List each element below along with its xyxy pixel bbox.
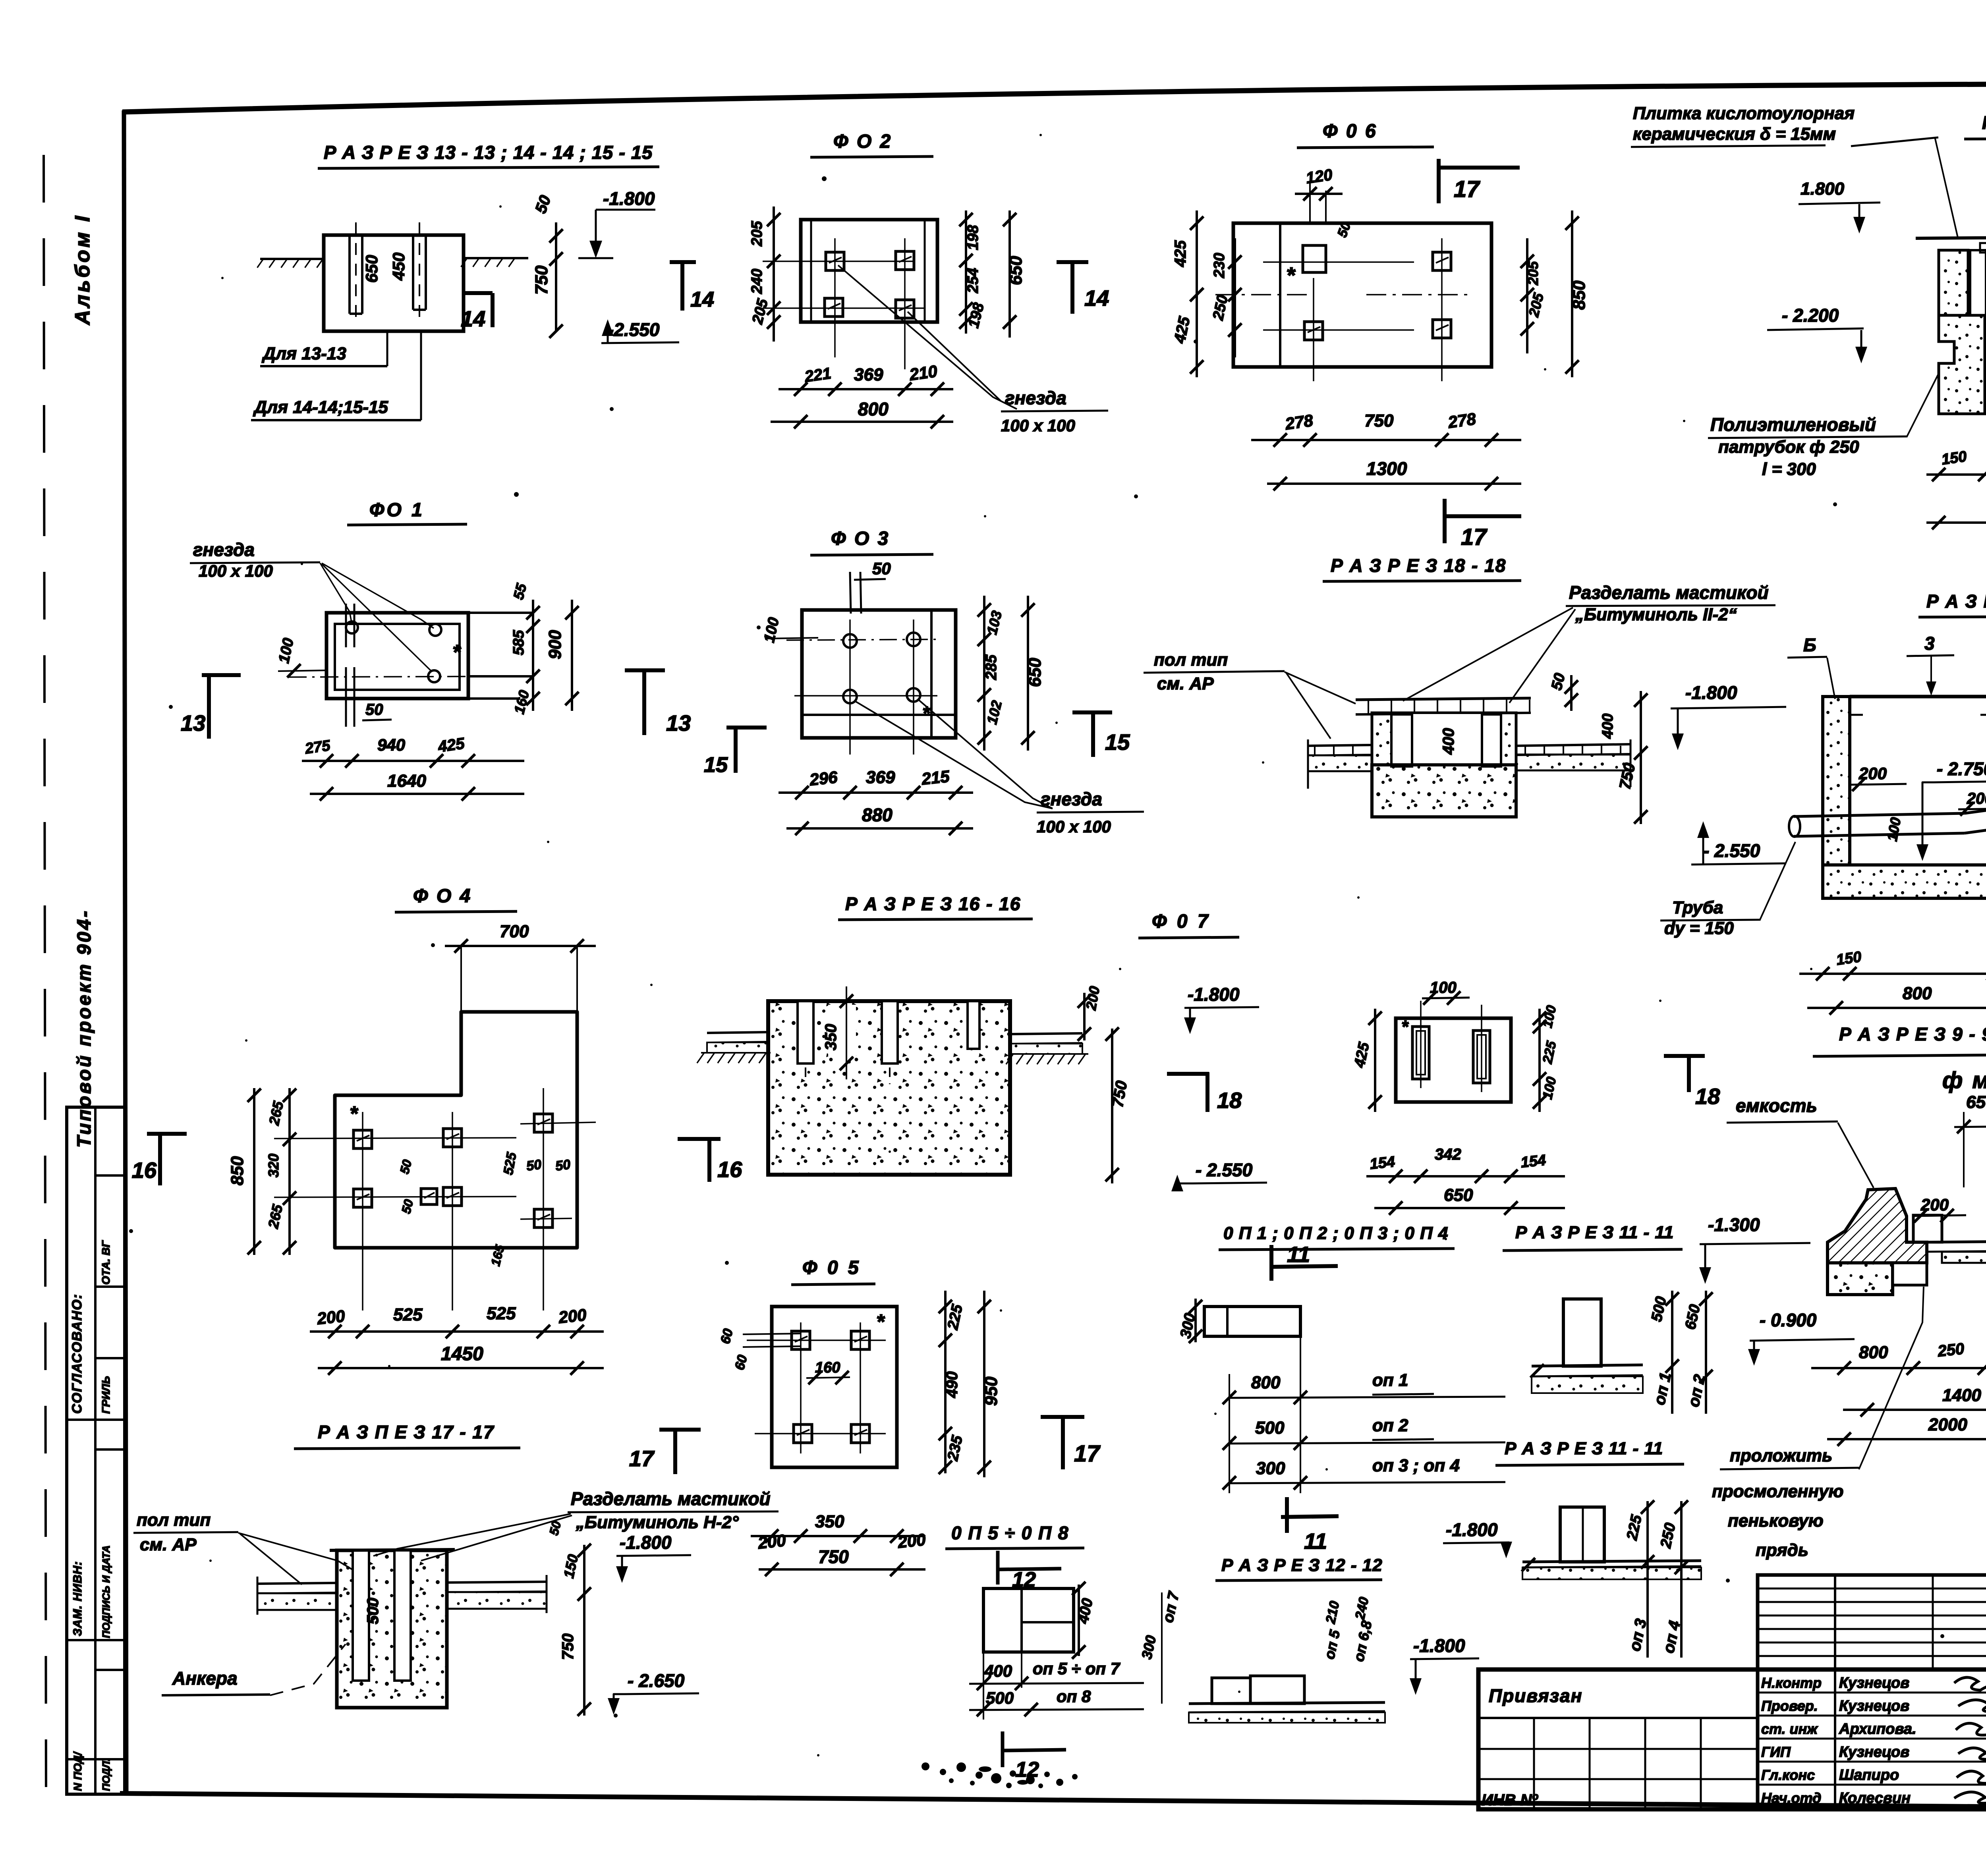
svg-text:369: 369 [866, 768, 895, 787]
bottom dim chain 7-7 [1799, 973, 1986, 975]
svg-text:278: 278 [1447, 409, 1478, 432]
right dim chain 205 205 850 [1526, 238, 1528, 353]
nest circles FO3 [843, 634, 857, 648]
svg-text:50: 50 [525, 1157, 543, 1174]
axis line col 1 [834, 238, 836, 357]
svg-text:Альбом I: Альбом I [71, 214, 94, 326]
axis line col 2 [904, 238, 906, 369]
row 400 op5-op7 [969, 1683, 1144, 1684]
section mark 17 top [1437, 159, 1441, 203]
row line op2 [1229, 1442, 1505, 1444]
svg-text:Анкера: Анкера [172, 1668, 238, 1689]
svg-text:Ф О 2: Ф О 2 [833, 131, 892, 152]
svg-text:800: 800 [1251, 1373, 1281, 1392]
pedestal 12-12 b [1250, 1676, 1304, 1704]
svg-text:400: 400 [1440, 728, 1457, 755]
svg-text:Р А З Р Е З 11 - 11: Р А З Р Е З 11 - 11 [1515, 1223, 1674, 1242]
nest square top-right [896, 251, 914, 270]
svg-text:13: 13 [181, 710, 205, 735]
svg-text:керамическия δ = 15мм: керамическия δ = 15мм [1633, 124, 1836, 144]
svg-text:ИНВ Nº: ИНВ Nº [1482, 1791, 1539, 1809]
svg-text:Для 14-14;15-15: Для 14-14;15-15 [253, 398, 388, 417]
trough inner cavity [1412, 713, 1482, 765]
svg-text:154: 154 [1369, 1154, 1396, 1173]
section mark 14 right [1057, 260, 1088, 264]
section mark 11 bottom [1285, 1497, 1289, 1533]
svg-text:Р А З Р Е З 11 - 11: Р А З Р Е З 11 - 11 [1505, 1439, 1663, 1458]
anchor slot left [348, 235, 351, 314]
svg-text:400: 400 [1600, 714, 1616, 739]
FO7 slot right [1473, 1031, 1490, 1083]
svg-text:- 2.750: - 2.750 [1937, 759, 1986, 779]
svg-text:оп 3 ; оп 4: оп 3 ; оп 4 [1372, 1456, 1460, 1475]
left dim chain [773, 207, 775, 342]
figure section 17-17 [133, 1422, 779, 1716]
svg-text:Р А З Р Е З 6 - 6: Р А З Р Е З 6 - 6 [1982, 112, 1986, 133]
svg-text:17: 17 [1454, 176, 1480, 202]
figure FO5 plan [629, 1257, 1101, 1576]
dim line 50 and 750 right of block [555, 222, 557, 331]
pier with anchors concrete 17-17 [337, 1550, 447, 1708]
svg-text:650: 650 [1006, 256, 1026, 285]
svg-text:ГРИЛЬ: ГРИЛЬ [100, 1376, 112, 1414]
section mark 16 left [147, 1132, 187, 1136]
right chain 400 750 18-18 [1640, 691, 1642, 824]
nest square top-left [826, 252, 844, 270]
svg-text:оп 5 ÷ оп 7: оп 5 ÷ оп 7 [1033, 1659, 1121, 1678]
axis line row 2 [763, 307, 925, 309]
svg-text:250: 250 [1936, 1340, 1965, 1360]
right floor slab 17-17 [447, 1582, 547, 1583]
FO6 inner vertical line [1279, 223, 1281, 367]
figure FO4 plan [132, 886, 742, 1375]
svg-text:Труба: Труба [1672, 898, 1723, 917]
right floor slab 18-18 [1516, 744, 1631, 746]
axis line row 1 [763, 261, 914, 262]
left dims 60 60 [743, 1334, 801, 1334]
svg-text:278: 278 [1284, 411, 1315, 434]
svg-text:16: 16 [717, 1157, 742, 1182]
svg-text:369: 369 [854, 365, 883, 384]
svg-text:l = 300: l = 300 [1762, 459, 1816, 479]
svg-text:*: * [350, 1102, 359, 1125]
svg-text:Ф 0 5: Ф 0 5 [802, 1257, 861, 1278]
FO2 inner line left [810, 220, 812, 322]
svg-text:490: 490 [943, 1371, 961, 1398]
svg-text:N ПОД/: N ПОД/ [71, 1751, 84, 1791]
svg-text:ст. инж: ст. инж [1761, 1721, 1818, 1737]
nest square top-right [1433, 252, 1451, 270]
svg-text:240: 240 [749, 269, 765, 294]
trough slots 18-18 [1391, 714, 1412, 766]
svg-text:15: 15 [1105, 730, 1130, 755]
svg-text:100 х 100: 100 х 100 [199, 562, 273, 580]
left dim chain 265 320 265 FO4 [288, 1088, 291, 1255]
axis lines FO4 [274, 1138, 516, 1139]
svg-text:-1.800: -1.800 [1188, 984, 1240, 1005]
right chain 100 225 100 FO7 [1538, 1009, 1541, 1112]
right chain 225 490 235 [944, 1291, 947, 1473]
svg-text:850: 850 [228, 1156, 247, 1185]
bottom dim 1300 [1267, 483, 1521, 485]
svg-text:14: 14 [690, 288, 714, 311]
svg-text:205: 205 [749, 221, 765, 247]
ground line left with hatch [260, 258, 325, 260]
svg-text:950: 950 [981, 1376, 1001, 1406]
pit floor slab 6-6 [1985, 382, 1986, 414]
svg-text:14: 14 [461, 306, 485, 331]
figure FO1 plan [181, 500, 691, 801]
concrete mass block 16-16 [768, 1001, 1010, 1175]
dim 1400 9-9 [1843, 1409, 1986, 1411]
svg-text:50: 50 [554, 1157, 572, 1174]
svg-text:ЗАМ. НИВН:: ЗАМ. НИВН: [71, 1561, 84, 1636]
left pit base slab [1823, 865, 1986, 898]
svg-text:- 2.550: - 2.550 [1196, 1160, 1253, 1180]
left dim 850 FO4 [253, 1088, 255, 1255]
svg-text:1640: 1640 [387, 771, 426, 791]
svg-text:оп 2: оп 2 [1372, 1416, 1408, 1435]
left dim chain 425 230 250 425 [1196, 210, 1198, 377]
ground slab right 16-16 [1010, 1033, 1082, 1034]
nest square bottom-left [825, 298, 843, 317]
svg-text:254: 254 [965, 268, 981, 293]
pipe right segment rising [1965, 793, 1986, 813]
svg-text:150: 150 [1835, 948, 1862, 968]
bottom dim 650 FO7 [1374, 1207, 1565, 1209]
right dim 900 FO1 [571, 600, 573, 711]
FO6 plan rectangle [1233, 223, 1491, 367]
top cap line 17-17 [330, 1550, 455, 1550]
svg-text:18: 18 [1217, 1088, 1242, 1113]
nest bottom FO1 [428, 670, 440, 682]
svg-text:285: 285 [983, 654, 1000, 680]
pipe left segment [1794, 813, 1965, 816]
section mark 14 left [670, 260, 696, 264]
slot right small in mass [968, 1001, 979, 1049]
drawing frame bottom border [120, 1793, 1986, 1811]
svg-text:120: 120 [1305, 166, 1333, 187]
nest squares FO4 row1 [354, 1130, 372, 1148]
section mark 13 right [625, 668, 665, 672]
figure section 18-18 [1144, 555, 1786, 865]
trough concrete upper 18-18 [1372, 713, 1516, 765]
section mark 12 bottom [1001, 1731, 1005, 1767]
left margin fold dashed line [44, 155, 46, 1806]
slot mid in mass [882, 1001, 898, 1063]
left pit corner angles [1850, 699, 1863, 715]
svg-text:оп 8: оп 8 [1057, 1687, 1091, 1706]
approval strip divider [95, 1448, 125, 1451]
svg-text:СОГЛАСОВАНО:: СОГЛАСОВАНО: [70, 1293, 85, 1414]
FO1 plan outer rectangle [326, 613, 468, 699]
svg-text:*: * [876, 1310, 885, 1334]
svg-text:11: 11 [1287, 1242, 1310, 1267]
svg-text:50: 50 [872, 559, 891, 578]
svg-text:13: 13 [666, 710, 691, 735]
figure OP5-OP8 plan [922, 1523, 1144, 1788]
svg-text:585: 585 [510, 630, 527, 655]
bottom dims 275 940 425 FO1 [302, 760, 524, 762]
svg-text:200: 200 [896, 1530, 927, 1552]
figure section 12-12 [1138, 1556, 1479, 1723]
svg-text:221: 221 [803, 365, 832, 386]
svg-text:525: 525 [487, 1304, 516, 1323]
svg-text:гнезда: гнезда [1005, 388, 1066, 408]
approval strip divider [67, 1758, 125, 1760]
nest square bottom-right [896, 300, 914, 318]
svg-text:350: 350 [815, 1512, 844, 1531]
svg-text:0 П 5 ÷ 0 П 8: 0 П 5 ÷ 0 П 8 [951, 1523, 1069, 1543]
svg-text:3: 3 [1924, 633, 1935, 654]
svg-text:пол тип: пол тип [1154, 650, 1228, 670]
right chain 150 750 17-17 [583, 1545, 585, 1716]
svg-text:16: 16 [132, 1158, 157, 1183]
svg-text:Архипова.: Архипова. [1839, 1721, 1916, 1737]
right dim 950 [983, 1291, 985, 1477]
svg-text:Полиэтиленовый: Полиэтиленовый [1710, 414, 1876, 435]
FO5 plan rectangle [772, 1307, 897, 1467]
bottom dims 154 342 154 FO7 [1366, 1175, 1565, 1177]
svg-text:11: 11 [1304, 1529, 1327, 1554]
svg-text:Гл.конс: Гл.конс [1761, 1767, 1815, 1783]
section mark 18 left [1206, 1072, 1209, 1112]
svg-text:1400: 1400 [1942, 1386, 1981, 1405]
anchor slot right 17-17 [394, 1550, 411, 1681]
left pit top lines [1850, 695, 1986, 699]
slab second [1522, 1561, 1701, 1562]
svg-text:„Битуминоль Н-2°: „Битуминоль Н-2° [576, 1513, 739, 1532]
svg-text:100 х 100: 100 х 100 [1001, 416, 1075, 435]
privyazan cell line [1478, 1717, 1758, 1719]
svg-text:Р А З Р Е З 7 - 7: Р А З Р Е З 7 - 7 [1926, 591, 1986, 612]
right chain 500 650 first [1671, 1291, 1673, 1414]
figure FO3 plan [704, 528, 1144, 836]
svg-text:оп 1: оп 1 [1372, 1370, 1408, 1390]
svg-text:„Битуминоль II-2“: „Битуминоль II-2“ [1575, 605, 1737, 624]
title block [1478, 1575, 1986, 1849]
svg-text:210: 210 [908, 362, 939, 384]
svg-text:-1.800: -1.800 [1413, 1635, 1465, 1656]
svg-text:Кузнецов: Кузнецов [1839, 1675, 1909, 1691]
top tile row 18-18 [1356, 698, 1531, 700]
nest top-left FO1 [346, 621, 358, 633]
svg-text:275: 275 [303, 737, 331, 757]
svg-text:650: 650 [1025, 658, 1045, 687]
svg-text:1.800: 1.800 [1801, 179, 1845, 199]
svg-text:Р А З Р Е З 13 - 13 ; 14 - 1: Р А З Р Е З 13 - 13 ; 14 - 14 ; 15 - 15 [324, 142, 653, 163]
svg-text:см. АР: см. АР [1157, 674, 1214, 693]
svg-text:-1.800: -1.800 [1446, 1519, 1498, 1540]
svg-text:198: 198 [965, 225, 981, 250]
svg-text:гнезда: гнезда [1041, 789, 1102, 809]
section mark 17 right FO5 [1041, 1415, 1084, 1419]
leader lines to nests FO1 [320, 563, 352, 624]
approval strip divider [67, 1419, 125, 1421]
title block outer rect [1478, 1669, 1986, 1809]
left floor slab 18-18 [1308, 745, 1372, 746]
row line op3 op4 [1229, 1482, 1505, 1483]
section mark 14 [462, 291, 493, 295]
nest square bottom-left [1304, 322, 1323, 340]
FO3 inner vertical [930, 610, 933, 738]
svg-text:750: 750 [532, 265, 551, 295]
upper names grid [1758, 1575, 1986, 1669]
left wall concrete column 6-6 [1939, 250, 1968, 315]
svg-text:патрубок ф 250: патрубок ф 250 [1718, 437, 1859, 457]
svg-text:300: 300 [1256, 1459, 1285, 1478]
right chain 55 585 160 FO1 [532, 600, 534, 711]
svg-text:-2.550: -2.550 [608, 319, 660, 340]
figure FO6 plan [1171, 121, 1589, 550]
svg-text:154: 154 [1520, 1152, 1547, 1171]
FO1 inner rectangle [335, 624, 460, 690]
figure section 6-6 [1631, 104, 1986, 537]
left floor slab 17-17 [257, 1583, 337, 1584]
top slot double lines [850, 572, 851, 614]
FO3 plan rectangle [802, 610, 956, 738]
bottom dim 750 [759, 1568, 925, 1571]
shield section squares 6-6 [1980, 243, 1986, 253]
svg-text:проложить: проложить [1730, 1446, 1832, 1465]
FO6 centre dash-dot line [1215, 294, 1311, 295]
approval strip divider [95, 1174, 125, 1177]
svg-text:17: 17 [1074, 1441, 1101, 1467]
bottom dims 200 350 200 [751, 1535, 925, 1537]
right dim 650 [1027, 596, 1029, 751]
svg-text:17: 17 [629, 1446, 655, 1471]
svg-text:Разделать мастикой: Разделать мастикой [571, 1488, 771, 1509]
svg-text:пол тип: пол тип [137, 1510, 211, 1530]
right chain 103 285 102 [983, 596, 985, 751]
right chain 225 250 second [1646, 1501, 1649, 1658]
svg-text:200: 200 [316, 1307, 346, 1328]
figure section 11-11 first [1503, 1223, 1713, 1414]
leader to гнезда label [838, 265, 1017, 409]
svg-text:Р А З Р Е З 16 - 16: Р А З Р Е З 16 - 16 [845, 894, 1021, 914]
slab 12-12 [1189, 1702, 1385, 1704]
ground line right with hatch [464, 257, 528, 259]
kerb base slab dotted 9-9 [1828, 1263, 1893, 1295]
svg-text:342: 342 [1435, 1146, 1461, 1163]
anchor slot left 17-17 [353, 1550, 369, 1681]
svg-text:Н.контр: Н.контр [1761, 1675, 1822, 1691]
svg-text:*: * [1401, 1017, 1409, 1036]
ink smudge near 12 [922, 1762, 1078, 1788]
kerb lower step 9-9 [1893, 1263, 1927, 1285]
svg-text:350: 350 [822, 1024, 840, 1050]
svg-text:650: 650 [1444, 1185, 1473, 1205]
svg-text:- 2.200: - 2.200 [1782, 305, 1839, 326]
figure FO2 plan [670, 131, 1109, 435]
bottom dim chain 221 369 210 [779, 388, 953, 390]
drawing frame left border [124, 110, 126, 1794]
dims 1000 80 6-6 [1926, 521, 1986, 524]
FO3 inner horizontal [802, 714, 956, 716]
top floor line 6-6 [1916, 235, 1986, 238]
svg-text:- 2.550: - 2.550 [1703, 840, 1760, 861]
svg-text:205: 205 [1525, 261, 1541, 286]
signature squiggles [1954, 1677, 1986, 1803]
concrete mass below trough 18-18 [1372, 765, 1516, 817]
section mark 15 right [1072, 710, 1112, 714]
svg-text:Ф 0 7: Ф 0 7 [1152, 911, 1211, 932]
slab line 11-11 first [1532, 1365, 1643, 1366]
vertical dividers main table [1756, 1669, 1760, 1809]
svg-text:dy = 150: dy = 150 [1664, 919, 1734, 938]
svg-text:гнезда: гнезда [193, 539, 255, 560]
dim 2000 9-9 [1827, 1438, 1986, 1440]
svg-text:200: 200 [557, 1305, 587, 1327]
row 500 op8 [969, 1709, 1144, 1710]
axis lines FO5 [747, 1339, 886, 1341]
approval strip outer box [67, 1107, 125, 1794]
svg-text:*: * [1286, 262, 1296, 288]
section mark 11 top [1269, 1245, 1273, 1281]
svg-text:1300: 1300 [1366, 458, 1407, 479]
FO1 right extension lines [468, 612, 533, 614]
svg-text:650: 650 [1966, 1092, 1986, 1112]
left pit left wall concrete [1823, 697, 1850, 865]
slot top FO1 [345, 604, 347, 647]
ground slab left 16-16 [707, 1032, 768, 1033]
nest pair small FO4 [421, 1189, 437, 1204]
section mark 17 left FO5 [659, 1428, 701, 1432]
FO7 axis lines [1420, 1001, 1422, 1088]
section mark 17 bottom [1443, 499, 1447, 543]
bottom dim 1640 FO1 [310, 793, 524, 795]
FO2 plan rectangle [801, 220, 937, 322]
nest top-right FO1 [429, 624, 441, 636]
right dim chain [965, 210, 967, 334]
kerb step shape hatched 9-9 [1828, 1189, 1927, 1263]
svg-text:900: 900 [545, 630, 565, 659]
svg-text:-1.800: -1.800 [1685, 682, 1737, 703]
svg-text:215: 215 [920, 767, 950, 788]
svg-text:50: 50 [365, 701, 383, 718]
dim 700 top FO4 [445, 945, 596, 947]
svg-text:Б: Б [1803, 635, 1816, 655]
svg-text:150: 150 [1940, 448, 1968, 468]
svg-text:*: * [452, 641, 462, 664]
OP plan rect [983, 1588, 1074, 1652]
svg-text:500: 500 [1255, 1418, 1285, 1438]
svg-text:940: 940 [377, 735, 405, 754]
svg-text:2000: 2000 [1928, 1415, 1967, 1434]
svg-text:500: 500 [986, 1689, 1014, 1707]
svg-text:1450: 1450 [441, 1343, 483, 1365]
dash-dot axis FO1 [288, 676, 516, 677]
svg-text:-1.800: -1.800 [620, 1532, 672, 1553]
bottom dim 800 [771, 421, 953, 423]
nest square bottom-right [1433, 320, 1451, 338]
pedestal 11-11 first [1563, 1299, 1601, 1366]
svg-text:800: 800 [1903, 984, 1932, 1003]
dim 425 left rotated FO7 [1374, 1009, 1376, 1112]
svg-text:ГИП: ГИП [1761, 1744, 1791, 1760]
svg-text:Ф О 3: Ф О 3 [831, 528, 890, 549]
svg-text:- 2.650: - 2.650 [628, 1670, 685, 1691]
svg-text:Ф О 4: Ф О 4 [413, 886, 472, 907]
anchor slot right [412, 235, 414, 310]
svg-text:750: 750 [818, 1546, 849, 1567]
slot bottom FO1 [345, 667, 347, 727]
svg-text:Разделать мастикой: Разделать мастикой [1569, 582, 1769, 603]
svg-text:емкость: емкость [1736, 1095, 1817, 1116]
privyazan lower grid [1478, 1748, 1758, 1750]
svg-text:15: 15 [704, 753, 728, 777]
section mark 13 left [202, 673, 241, 677]
